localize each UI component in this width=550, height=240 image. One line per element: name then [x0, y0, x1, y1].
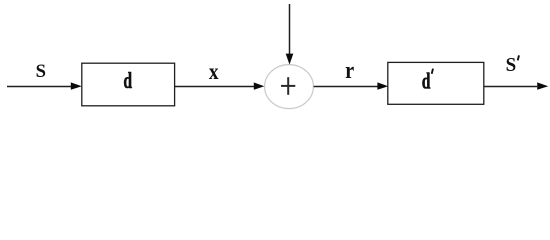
- svg-text:d: d: [422, 69, 431, 95]
- svg-text:d: d: [123, 68, 132, 94]
- svg-text:x: x: [209, 59, 219, 85]
- svg-text:r: r: [345, 57, 354, 84]
- svg-text:S: S: [36, 61, 46, 82]
- svg-text:S: S: [506, 55, 517, 76]
